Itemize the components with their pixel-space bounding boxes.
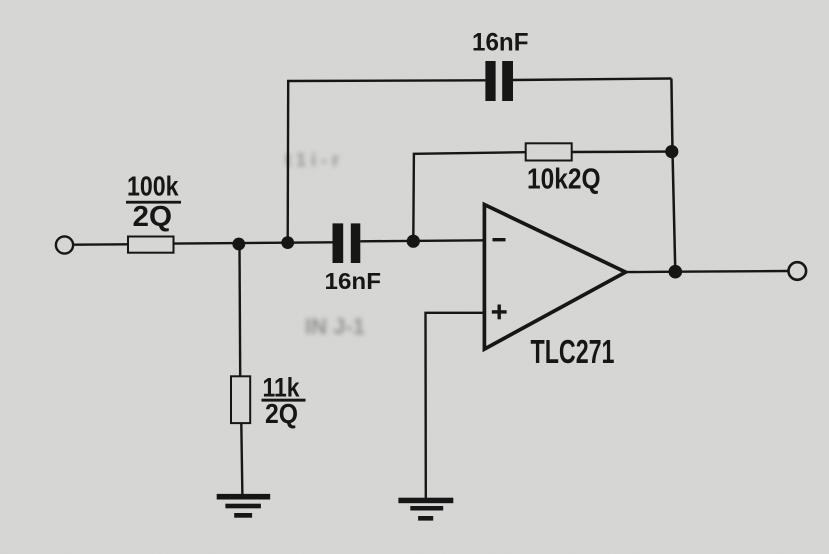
node D junction dot bbox=[669, 265, 683, 279]
resistor R3 10k2Q bbox=[526, 143, 572, 160]
svg-text:16nF: 16nF bbox=[472, 29, 529, 57]
svg-text:2Q: 2Q bbox=[265, 398, 298, 429]
node E junction dot bbox=[407, 235, 420, 248]
svg-text:t 1 i - r: t 1 i - r bbox=[285, 150, 339, 170]
output terminal J2 bbox=[789, 262, 807, 280]
wire: C2 right plate to node E and on to op-amp inverting input bbox=[360, 240, 484, 241]
wire: node D to output terminal bbox=[675, 270, 787, 273]
svg-text:TLC271: TLC271 bbox=[531, 333, 615, 370]
faint page show-through marks bbox=[285, 150, 365, 339]
label R2 value 11k over 2Q bbox=[262, 372, 306, 429]
capacitor C2 16nF (series input) bbox=[333, 223, 361, 263]
wire: node A down to R2 bbox=[238, 244, 241, 377]
svg-text:16nF: 16nF bbox=[325, 268, 382, 294]
op-amp non-inverting input plus sign bbox=[492, 305, 507, 320]
svg-text:2Q: 2Q bbox=[133, 201, 173, 233]
node C junction dot bbox=[665, 145, 678, 158]
node B junction dot bbox=[281, 236, 294, 249]
wire: top-right corner down to node C bbox=[671, 79, 672, 152]
label R1 value 100k over 2Q bbox=[126, 171, 181, 234]
capacitor C1 16nF (top feedback) bbox=[485, 61, 513, 101]
wire: R2 to ground 1 bbox=[241, 423, 242, 497]
ground 1 bbox=[217, 494, 271, 518]
wire: R1 to node A to node B to C2 left plate bbox=[174, 242, 333, 243]
op-amp U1 triangle bbox=[484, 205, 625, 350]
wire: node C down to node D bbox=[673, 152, 676, 272]
node A junction dot bbox=[232, 238, 245, 251]
input terminal J1 bbox=[56, 236, 73, 253]
wire: C1 right plate to top-right corner bbox=[513, 79, 671, 81]
ground 2 bbox=[398, 498, 453, 521]
wire: node B up to top-left corner then right to C1 bbox=[288, 80, 486, 242]
wire: op-amp output to node D bbox=[626, 271, 676, 274]
svg-text:10k2Q: 10k2Q bbox=[527, 163, 601, 195]
svg-text:IN J-1: IN J-1 bbox=[305, 314, 365, 339]
wire: non-inverting input left then down to ground 2 bbox=[426, 313, 485, 499]
wire: input terminal to R1 bbox=[74, 243, 129, 246]
resistor R2 11k/2Q (vertical) bbox=[231, 376, 250, 423]
op-amp inverting input minus sign bbox=[493, 238, 506, 241]
svg-text:100k: 100k bbox=[127, 171, 179, 202]
wire: node E up then right to R3 bbox=[413, 152, 525, 241]
wire: R3 to node C bbox=[572, 150, 672, 153]
resistor R1 100k/2Q bbox=[128, 237, 174, 253]
